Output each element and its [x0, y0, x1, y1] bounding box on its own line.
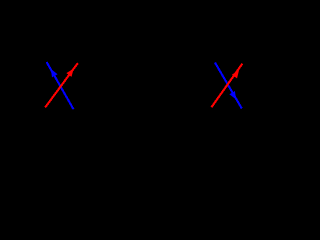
left crossing: blue arrowhead pointing up-left [51, 69, 58, 78]
right crossing: red arrowhead pointing up-right [232, 70, 239, 78]
left crossing: blue band line [47, 62, 74, 109]
left crossing: red arrowhead pointing up-right [66, 69, 73, 77]
right crossing: blue band line [215, 63, 242, 109]
right crossing: blue arrowhead pointing down-right [229, 91, 236, 100]
right crossing: red band line [211, 64, 242, 108]
left crossing: red band line [45, 63, 78, 107]
